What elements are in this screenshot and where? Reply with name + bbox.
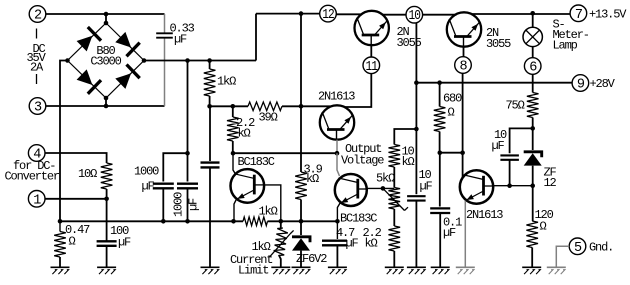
label 1k pot <box>252 240 271 254</box>
ground terminal 5 <box>547 267 566 274</box>
terminal 9 <box>572 75 589 93</box>
svg-text:Converter: Converter <box>5 170 60 184</box>
wire to 10uF reference cap <box>510 128 533 153</box>
capacitor C2 100uF <box>97 241 117 246</box>
label +28V <box>590 77 616 91</box>
wire AC coupling vertical <box>164 14 166 106</box>
svg-text:µF: µF <box>492 139 505 153</box>
svg-text:1kΩ: 1kΩ <box>217 75 236 89</box>
ground under 120 ohm <box>522 267 541 274</box>
terminal 7 <box>570 5 587 23</box>
wire 2N1613-2 base <box>493 185 533 187</box>
resistor R6 680 ohm <box>434 107 446 132</box>
wire 0.1uF vertical <box>439 153 441 207</box>
node junction base/wiper <box>381 186 386 191</box>
resistor R9 1k series <box>243 217 268 226</box>
node junction base/collector net <box>335 151 340 156</box>
wire 10 ohm to terminal 1 node <box>106 189 108 199</box>
svg-text:kΩ: kΩ <box>365 237 378 251</box>
transistor Q1 2N3055 <box>355 11 389 45</box>
label 120 ohm <box>535 208 554 233</box>
node junction 75/10uF/zener <box>530 126 535 131</box>
node corner negative rail <box>58 219 63 224</box>
wire AC bottom from terminal 3 <box>46 105 165 107</box>
wire 39ohm to 2N1613 base wire <box>282 105 330 107</box>
wire 2N1613-2 emitter <box>464 201 466 268</box>
node junction base/pot <box>279 219 284 224</box>
resistor R13 5k pot body <box>389 188 401 210</box>
transistor Q4 2N1613 <box>460 170 493 203</box>
label BC183C first <box>238 155 275 169</box>
svg-text:39Ω: 39Ω <box>259 111 278 125</box>
svg-text:Voltage: Voltage <box>341 153 384 167</box>
wire divider node to 39ohm <box>210 105 248 107</box>
node bridge right vertex <box>142 58 147 63</box>
wire 5k to 2.2k <box>393 209 395 226</box>
node junction 1000uF parallel <box>185 151 190 156</box>
node junction 680/0.1uF <box>438 150 443 155</box>
label 39 ohm <box>259 111 278 125</box>
wire 1000uF-1 link <box>163 153 187 181</box>
capacitor C6 4.7uF <box>322 241 347 246</box>
label 5k pot <box>376 171 395 185</box>
resistor R5 39 ohm <box>248 102 282 111</box>
node junction rail end emitter2 <box>335 219 340 224</box>
capacitor C4 1000uF <box>177 184 198 189</box>
label 100 uF <box>110 224 131 249</box>
ground under ZF6V2 <box>292 267 311 274</box>
ground under 100uF <box>97 267 116 274</box>
wire 2N3055-2 emitter to terminal 7 <box>472 13 570 15</box>
ground under 2.2k <box>385 267 404 274</box>
resistor R11 3.9k <box>295 172 307 200</box>
label S-Meter-Lamp <box>553 18 589 53</box>
svg-text:C3000: C3000 <box>90 55 121 69</box>
label 10 kohm <box>402 145 415 169</box>
label ZF6V2 <box>296 252 327 266</box>
node junction zener/base/120 <box>530 183 535 188</box>
wire terminal 10 to 2N3055-2 <box>423 14 457 16</box>
resistor R3 1k <box>204 69 216 96</box>
transistor Q5 BC183C <box>231 169 265 203</box>
node junction bridge bottom <box>104 104 109 109</box>
wire terminal 10 vertical <box>415 23 417 129</box>
svg-text:µF: µF <box>346 237 359 251</box>
resistor R2 0.47 ohm <box>54 221 66 257</box>
terminal 6 <box>524 58 541 76</box>
ground under center cap <box>201 267 220 274</box>
label uF rotated <box>187 198 201 211</box>
capacitor C9 0.1uF <box>430 208 450 213</box>
node bridge bottom vertex <box>104 96 109 101</box>
wire 3.9k vertical top <box>300 14 302 172</box>
wire terminal 11 up to 2N3055 base <box>370 45 372 57</box>
label 680 ohm <box>443 92 462 120</box>
label 0.33 uF <box>170 21 195 46</box>
node bridge top vertex <box>104 21 109 26</box>
wire 2N3055-1 to terminal 10 <box>382 14 406 16</box>
resistor R12 10k <box>389 145 401 168</box>
node junction 39ohm/3.9k vertical <box>299 104 304 109</box>
ground under 4.7uF <box>328 267 347 274</box>
node junction divider <box>207 104 212 109</box>
zener diode D6 ZF6V2 <box>292 237 310 251</box>
wire terminal 6 down through rail to 75ohm <box>532 74 534 92</box>
label Current Limit <box>230 253 272 278</box>
wire dash below 2A label <box>36 74 38 84</box>
wire bridge top vertex <box>105 14 107 23</box>
node junction rail/terminal10 line <box>414 80 419 85</box>
wire terminal 5 to ground <box>556 246 569 267</box>
svg-text:2N1613: 2N1613 <box>318 90 355 104</box>
label 10 ohm <box>78 167 97 181</box>
svg-text:kΩ: kΩ <box>402 155 415 169</box>
label 1000 uF first <box>134 165 159 194</box>
wire ZF6V2 to ground <box>300 251 302 268</box>
wire BC1 base right <box>264 185 281 221</box>
wire BC2 base to pot <box>367 187 395 189</box>
svg-text:11: 11 <box>366 60 378 75</box>
wire bridge left vertex to negative rail <box>60 61 68 222</box>
svg-text:1000: 1000 <box>172 192 186 217</box>
wire BC2 emitter down <box>337 204 339 240</box>
label 2.2 kohm lower <box>363 226 382 251</box>
wire down to 100uF <box>106 199 108 242</box>
wire 10uF ref bottom <box>509 160 511 186</box>
svg-text:BC183C: BC183C <box>340 212 377 226</box>
label 0.47 ohm <box>65 223 90 248</box>
capacitor C8 10uF <box>407 196 426 200</box>
svg-text:+13.5V: +13.5V <box>589 8 627 22</box>
svg-text:1: 1 <box>33 193 41 208</box>
ground under 10uF <box>407 267 426 274</box>
wire terminal 12 to 2N3055-1 <box>336 13 361 15</box>
resistor R8 120 ohm <box>526 221 538 248</box>
wire 2.2k to ground <box>393 251 395 267</box>
resistor R7 75 ohm <box>527 93 539 118</box>
capacitor C7 10uF reference <box>500 155 519 159</box>
transistor Q6 BC183C <box>335 174 367 206</box>
node junction 2.2k tap <box>231 104 236 109</box>
svg-text:µF: µF <box>420 179 433 193</box>
node junction 680 top <box>437 80 442 85</box>
svg-text:680: 680 <box>443 92 462 106</box>
wire terminal 1 <box>45 198 107 200</box>
wire 10k top corner <box>394 129 416 145</box>
label DC 35V 2A <box>27 42 47 74</box>
wire 10uF to ground <box>415 201 417 268</box>
wire 1000uF-2 bottom <box>187 188 189 221</box>
wire 4.7uF to ground <box>336 245 338 267</box>
zener diode D5 ZF12 <box>524 152 542 166</box>
terminal 4 <box>28 145 45 163</box>
label 4.7 uF <box>336 226 359 251</box>
resistor R4 2.2k <box>227 117 239 141</box>
svg-text:Ω: Ω <box>448 106 455 120</box>
wire 1000uF-2 vertical <box>187 61 189 182</box>
wire terminal 8 down <box>462 73 464 177</box>
node junction BC1 emitter <box>231 219 236 224</box>
wire 75ohm to zener node <box>532 118 534 151</box>
lamp S-meter <box>523 27 542 46</box>
transistor Q2 2N3055 <box>447 12 481 46</box>
pot wiper current limit <box>270 230 294 257</box>
wire 3.9k to rail <box>300 200 302 222</box>
svg-text:µF: µF <box>187 198 201 211</box>
label Output Voltage <box>341 142 384 167</box>
terminal 11 <box>363 57 380 75</box>
label 10uF mid <box>419 168 433 193</box>
pot wiper output voltage <box>383 188 408 210</box>
svg-text:1kΩ: 1kΩ <box>252 240 271 254</box>
diode bridge top-left <box>77 27 101 51</box>
wire BC183C-2 collector <box>337 153 340 176</box>
node junction 1000uF-1 rail <box>161 219 166 224</box>
wire lamp to terminal 6 <box>532 47 534 58</box>
ground under 2N1613-2 emitter <box>456 267 475 274</box>
svg-text:+28V: +28V <box>590 77 616 91</box>
wire 2.2k tap down <box>232 106 234 117</box>
wire center cap vertical <box>209 106 211 161</box>
wire mid horizontal net y153 <box>233 152 337 154</box>
node junction 1k top <box>207 58 212 63</box>
label 2N1613 upper <box>318 90 355 104</box>
svg-text:6: 6 <box>529 61 537 76</box>
svg-text:kΩ: kΩ <box>306 172 319 186</box>
wire 0.1uF to ground <box>439 213 441 267</box>
wire positive rail y60 <box>144 14 320 61</box>
wire rail to zener ZF6V2 <box>300 221 302 235</box>
diode bridge bottom-left <box>77 69 101 93</box>
wire 1000uF-1 bottom <box>162 188 164 221</box>
resistor R10 1k pot body <box>274 228 288 256</box>
wire 10k to 5k <box>393 167 395 188</box>
label 0.1 uF <box>443 216 462 240</box>
terminal 8 <box>455 57 472 75</box>
svg-text:µF: µF <box>443 226 456 240</box>
wire 2N3055-2 base to terminal 8 <box>463 47 465 57</box>
svg-text:3: 3 <box>34 101 42 116</box>
label Gnd. <box>589 240 613 254</box>
svg-text:µF: µF <box>142 179 155 193</box>
svg-text:8: 8 <box>460 60 468 75</box>
svg-text:µF: µF <box>118 235 131 249</box>
svg-text:9: 9 <box>577 78 585 93</box>
terminal 10 <box>406 6 423 24</box>
wire +28V rail <box>416 82 572 84</box>
svg-text:5kΩ: 5kΩ <box>376 171 395 185</box>
label 2N3055 first <box>397 25 422 50</box>
resistor R1 10 ohm <box>101 163 113 189</box>
svg-text:Lamp: Lamp <box>553 38 578 52</box>
wire 2.2k to collector node <box>232 141 234 152</box>
node junction 1000uF-2 rail <box>185 219 190 224</box>
wire 100uF to ground <box>106 246 108 267</box>
svg-text:2N1613: 2N1613 <box>466 208 503 222</box>
wire 120 to ground <box>531 248 533 268</box>
diode bridge top-right <box>115 32 139 56</box>
terminal 12 <box>320 5 337 23</box>
capacitor C5 unlabeled <box>201 163 220 168</box>
svg-text:Gnd.: Gnd. <box>589 240 613 254</box>
svg-text:5: 5 <box>574 241 582 256</box>
wire 680 bottom <box>440 132 463 153</box>
svg-text:1kΩ: 1kΩ <box>259 204 278 218</box>
label 1k ohm <box>217 75 236 89</box>
label 2.2 kohm upper <box>236 116 255 140</box>
label 3.9 kohm <box>304 163 323 187</box>
node junction 2.2k bottom <box>231 151 236 156</box>
wire pot to ground <box>279 221 281 267</box>
ground under 0.1uF <box>431 267 450 274</box>
svg-text:kΩ: kΩ <box>238 126 251 140</box>
terminal 5 <box>569 238 586 256</box>
svg-text:Ω: Ω <box>540 219 547 233</box>
label BC183C second <box>340 212 377 226</box>
node junction bridge top <box>104 12 109 17</box>
svg-text:75Ω: 75Ω <box>506 99 525 113</box>
label for DC-Converter <box>5 159 60 184</box>
bridge rectifier B80C3000 diamond <box>68 23 145 98</box>
svg-text:1000: 1000 <box>134 165 159 179</box>
svg-text:10: 10 <box>409 9 421 24</box>
node junction lamp <box>530 11 535 16</box>
wire negative rail right part <box>268 220 338 222</box>
wire BC1 emitter down <box>234 199 236 221</box>
label 75 ohm <box>506 99 525 113</box>
label ZF 12 <box>544 165 557 190</box>
label 1000 rotated <box>172 192 186 217</box>
svg-text:2: 2 <box>34 9 42 24</box>
wire center cap to ground <box>209 167 211 267</box>
label 2N1613 lower <box>466 208 503 222</box>
wire 2N1613 base down <box>336 140 338 154</box>
transistor Q3 2N1613 <box>320 105 354 139</box>
wire lamp top <box>532 13 534 27</box>
svg-text:12: 12 <box>322 8 334 23</box>
capacitor C1 0.33uF <box>156 33 173 37</box>
resistor R14 2.2k lower <box>389 226 401 251</box>
terminal 1 <box>28 191 45 209</box>
label +13.5V <box>589 8 627 22</box>
label 2N3055 second <box>486 26 511 51</box>
ground under pot <box>271 267 290 274</box>
node junction terminal1/10ohm/100uF <box>104 197 109 202</box>
label B80 C3000 <box>90 44 121 68</box>
wire 0.47ohm to ground <box>59 257 61 267</box>
svg-text:10Ω: 10Ω <box>78 167 97 181</box>
wire BC183C-1 collector <box>233 153 236 174</box>
wire zener to base node <box>532 166 534 221</box>
svg-text:µF: µF <box>174 32 187 46</box>
svg-text:2A: 2A <box>30 60 44 74</box>
wire AC top from terminal 2 <box>46 13 165 15</box>
capacitor C3 1000uF <box>153 184 174 189</box>
svg-text:12: 12 <box>544 176 557 190</box>
svg-text:Ω: Ω <box>69 234 76 248</box>
node junction 10uF/base wire <box>507 183 512 188</box>
node junction 10k/T10-line <box>414 127 419 132</box>
diode bridge bottom-right <box>115 65 139 89</box>
node bridge left vertex <box>65 58 70 63</box>
svg-text:3055: 3055 <box>397 36 422 50</box>
wire dash above DC label <box>36 29 38 39</box>
label 1k series <box>259 204 278 218</box>
terminal 3 <box>29 98 46 116</box>
node junction 3.9k/zener <box>299 219 304 224</box>
svg-text:7: 7 <box>575 8 583 23</box>
wire emitter 2N1613 to terminal 11 <box>345 74 371 107</box>
wire T10-line to 10uF <box>415 129 417 194</box>
wire 1k to node <box>209 61 211 107</box>
svg-text:Limit: Limit <box>238 264 268 278</box>
node junction T8 line <box>460 150 465 155</box>
wire 680 top <box>439 83 441 107</box>
svg-text:BC183C: BC183C <box>238 155 275 169</box>
label 10 uF reference <box>492 128 508 153</box>
wire negative rail left part <box>60 220 243 222</box>
node junction collector rail / R-divider <box>299 11 304 16</box>
wire terminal 4 to 10 ohm <box>45 153 107 163</box>
node junction 1000uF-2 top <box>185 58 190 63</box>
wire bridge bottom vertex <box>105 98 107 106</box>
ground under 0.47 ohm <box>51 267 70 274</box>
terminal 2 <box>29 6 46 24</box>
svg-text:3055: 3055 <box>486 37 511 51</box>
